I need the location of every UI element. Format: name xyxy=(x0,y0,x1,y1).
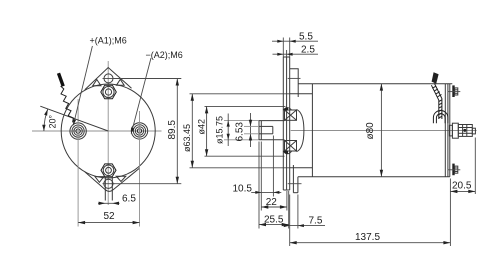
front housing bottom line xyxy=(290,167,313,169)
shaft bottom line xyxy=(259,139,285,141)
bearing housing bulge xyxy=(297,109,304,151)
front view vertical centerline xyxy=(107,61,109,205)
extension line bottom hole to 89.5 xyxy=(113,183,181,185)
svg-text:6.53: 6.53 xyxy=(234,122,245,142)
extension lines flange thickness xyxy=(282,38,284,58)
20 degree dimension arc xyxy=(44,109,48,131)
brush wire blob xyxy=(59,73,64,86)
extension line rear face xyxy=(449,179,451,247)
svg-text:ø42: ø42 xyxy=(197,119,207,135)
flange plate mid line xyxy=(286,57,288,190)
flange bottom tab xyxy=(85,168,139,191)
flange plate left face xyxy=(282,57,284,190)
svg-text:7.5: 7.5 xyxy=(309,215,323,226)
bottom tab right rib triangle xyxy=(116,176,126,181)
svg-text:20°: 20° xyxy=(48,114,58,128)
side view horizontal centerline xyxy=(291,130,477,132)
top tab right rib triangle xyxy=(116,79,124,85)
terminal stud washer xyxy=(452,123,458,138)
svg-text:20.5: 20.5 xyxy=(452,181,472,192)
dimension 6.53 line xyxy=(250,113,252,147)
svg-text:6.5: 6.5 xyxy=(122,194,136,205)
dimension o63.45 line xyxy=(191,94,193,168)
dimension 2.5 line xyxy=(273,53,319,55)
svg-text:25.5: 25.5 xyxy=(264,215,284,226)
shaft slot end xyxy=(272,126,274,133)
flange top tab xyxy=(85,68,132,90)
svg-text:22: 22 xyxy=(266,197,278,208)
upper bearing dome xyxy=(283,108,292,110)
left mounting hole A1 xyxy=(70,123,86,139)
extension line stud end xyxy=(474,138,476,195)
dimension 52 line xyxy=(78,222,140,224)
upper seal wedge xyxy=(283,107,288,110)
front view horizontal centerline xyxy=(32,130,162,132)
svg-text:52: 52 xyxy=(104,211,116,222)
dimension 6.5 line xyxy=(98,202,120,204)
extension line bottom tab right xyxy=(297,195,299,229)
motor body top line xyxy=(298,83,452,85)
svg-text:+(A1);M6: +(A1);M6 xyxy=(90,36,127,46)
svg-text:137.5: 137.5 xyxy=(355,232,380,243)
braided lead diagonal band xyxy=(431,83,442,119)
shaft slot top line xyxy=(259,125,273,127)
svg-text:89.5: 89.5 xyxy=(167,120,178,140)
extension line slot end xyxy=(272,136,274,197)
extension line top hole to 89.5 xyxy=(113,78,181,80)
motor body front face xyxy=(311,84,313,177)
top through bolt xyxy=(452,85,454,97)
leader to A2 hole xyxy=(131,58,151,134)
extension line flange right xyxy=(288,191,290,229)
front housing top line xyxy=(290,93,313,95)
dimension 7.5 line xyxy=(283,225,325,227)
extension line shaft chamfer xyxy=(260,142,262,211)
svg-text:ø15.75: ø15.75 xyxy=(214,116,224,144)
svg-text:ø63.45: ø63.45 xyxy=(182,124,192,152)
svg-text:5.5: 5.5 xyxy=(299,32,313,43)
wire clamp arch xyxy=(433,111,448,124)
bottom bolt shank lines xyxy=(104,177,106,201)
shaft end face xyxy=(258,121,260,140)
bottom tab step xyxy=(292,165,294,193)
dimension 22 line xyxy=(261,206,287,208)
dimension o15.75 line xyxy=(227,114,229,147)
left hole vertical centerline / 52 extension xyxy=(77,99,79,227)
svg-text:2.5: 2.5 xyxy=(301,45,315,56)
extension line shaft end xyxy=(258,142,260,229)
extension lines shaft o15.75 xyxy=(224,120,259,122)
motor body rear face xyxy=(444,84,446,177)
lower seal wedge xyxy=(283,151,288,154)
svg-text:ø80: ø80 xyxy=(365,122,376,140)
flange bottom cap xyxy=(283,189,289,191)
bottom hex bolt xyxy=(101,164,116,177)
bottom tab hole xyxy=(104,179,113,188)
20 degree slanted line xyxy=(40,106,108,131)
top tab hole centerline cross xyxy=(288,77,301,79)
dimension o80 line xyxy=(380,84,382,177)
bottom tab hole centerline cross xyxy=(288,183,302,185)
shaft slot bottom line xyxy=(259,133,273,135)
extension line flange face for 137.5 xyxy=(289,195,291,247)
dimension 25.5 line xyxy=(259,224,289,226)
extension lines bearing o42 xyxy=(205,105,286,107)
top tab hole xyxy=(104,74,113,83)
dimension 137.5 line xyxy=(290,242,451,244)
extension lines housing o63.45 xyxy=(190,93,290,95)
terminal stud end pip xyxy=(472,128,475,134)
dimension 5.5 line xyxy=(272,40,318,42)
flange top cap xyxy=(283,56,289,58)
dimension 20.5 line xyxy=(450,190,475,192)
dimension 10.5 line xyxy=(251,191,281,193)
motor body circle o80 xyxy=(61,84,155,178)
lower bearing box xyxy=(285,141,297,152)
terminal tab black xyxy=(432,72,439,84)
leader to A1 hole xyxy=(73,46,92,125)
extension line flange mid xyxy=(286,191,288,211)
shaft chamfer line xyxy=(260,121,262,140)
shaft top line xyxy=(259,120,285,122)
terminal stud threaded body xyxy=(458,125,472,137)
upper bearing box xyxy=(285,110,297,120)
right hole vertical centerline / 52 extension xyxy=(139,111,141,227)
dimension 89.5 line xyxy=(176,79,178,184)
top hex bolt xyxy=(101,85,117,98)
dimension o42 line xyxy=(206,106,208,156)
brush wire zigzag xyxy=(61,86,74,122)
top tab left rib triangle xyxy=(93,80,101,86)
svg-text:10.5: 10.5 xyxy=(233,183,253,194)
end cap seam lines xyxy=(447,84,449,177)
lower bearing dome xyxy=(283,151,292,154)
bottom through bolt xyxy=(452,164,454,176)
bottom tab left rib triangle xyxy=(95,177,104,183)
right mounting hole A2 xyxy=(131,123,147,139)
flange top tab step xyxy=(290,69,299,97)
flange plate right face xyxy=(289,57,291,190)
motor body bottom line xyxy=(298,176,450,178)
